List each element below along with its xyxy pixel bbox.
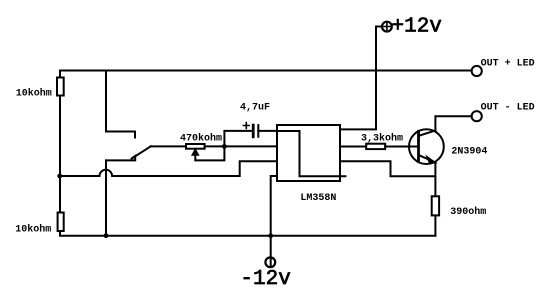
op-amp U1 LM358N package outline (277, 125, 340, 181)
wire R5 to bottom rail (434, 215, 436, 235)
label OUT - LED (481, 103, 535, 114)
svg-text:390ohm: 390ohm (450, 206, 486, 218)
capacitor C1 polarity plus sign (243, 123, 249, 129)
wire node A up to capacitor (224, 131, 252, 147)
wire left rail middle segment (59, 96, 61, 213)
wire internal feedback through U1 (277, 131, 345, 176)
wire U1 out to resistor R4 (340, 146, 366, 148)
svg-text:4,7uF: 4,7uF (240, 103, 270, 114)
wire -12v terminal lead (270, 236, 272, 267)
wire pot right terminal to op-amp pin 2 (205, 145, 277, 147)
svg-text:OUT - LED: OUT - LED (481, 103, 535, 114)
svg-text:LM358N: LM358N (300, 193, 336, 204)
value label 10kohm (R2) (15, 224, 51, 236)
value label 10kohm (R1) (16, 88, 52, 100)
terminal OUT + LED circle (472, 66, 482, 76)
wire blade to potentiometer (151, 145, 186, 147)
switch blade S1 (106, 146, 151, 160)
node junction dot left rail / feedback wire (57, 174, 62, 179)
wire U1 output step to emitter net (340, 161, 435, 176)
transistor Q1 2N3904 (409, 129, 444, 164)
terminal OUT - LED circle (472, 111, 482, 121)
wire feedback with hop over x=106 (60, 161, 277, 176)
wire bottom rail (60, 231, 435, 236)
capacitor C1 4,7uF plates (253, 125, 258, 137)
wire R4 to Q1 base (385, 146, 418, 148)
value label 390ohm (450, 206, 486, 218)
wire top rail (60, 70, 472, 72)
power terminal -12v circle (265, 257, 275, 267)
node junction dot x=106 on bottom rail (104, 233, 109, 238)
power label +12v (392, 16, 442, 39)
label OUT + LED (481, 59, 535, 70)
value label 3,3kohm (361, 133, 403, 145)
resistor R2 10kohm (bottom left) (58, 213, 64, 232)
svg-text:10kohm: 10kohm (16, 88, 52, 100)
svg-text:470kohm: 470kohm (180, 133, 222, 145)
potentiometer R3 wiper arrow (192, 149, 199, 155)
wire Q1 emitter down to R5 (434, 163, 436, 196)
power label -12v (240, 268, 290, 291)
wire switch fixed contact from top rail (106, 71, 135, 138)
resistor R1 10kohm (top left) (57, 78, 64, 96)
power terminal +12v circle with plus (382, 22, 392, 32)
wire +12v down to U1 V+ pin (340, 27, 382, 130)
svg-text:2N3904: 2N3904 (451, 147, 487, 158)
value label 470kohm (180, 133, 222, 145)
wire left rail top segment (59, 71, 61, 78)
wire capacitor to op-amp box (258, 130, 277, 132)
resistor R5 390ohm body (432, 196, 439, 215)
wire U1 V- pin stub to -12v rail (271, 176, 277, 236)
value label 4,7uF (240, 103, 270, 114)
svg-text:-12v: -12v (240, 268, 290, 291)
svg-text:3,3kohm: 3,3kohm (361, 133, 403, 145)
wire wiper to node A (195, 146, 224, 160)
potentiometer R3 470kohm body (186, 144, 205, 149)
part label 2N3904 (451, 147, 487, 158)
node junction dot -12v on bottom rail (268, 233, 273, 238)
node A junction dot (222, 144, 227, 149)
wire Q1 collector to OUT - LED (435, 116, 471, 129)
wire vertical x=106 to bottom rail (105, 160, 107, 235)
svg-text:10kohm: 10kohm (15, 224, 51, 236)
svg-text:OUT + LED: OUT + LED (481, 59, 535, 70)
part label LM358N (300, 193, 336, 204)
resistor R4 3,3kohm body (366, 144, 385, 149)
svg-text:+12v: +12v (392, 16, 442, 39)
